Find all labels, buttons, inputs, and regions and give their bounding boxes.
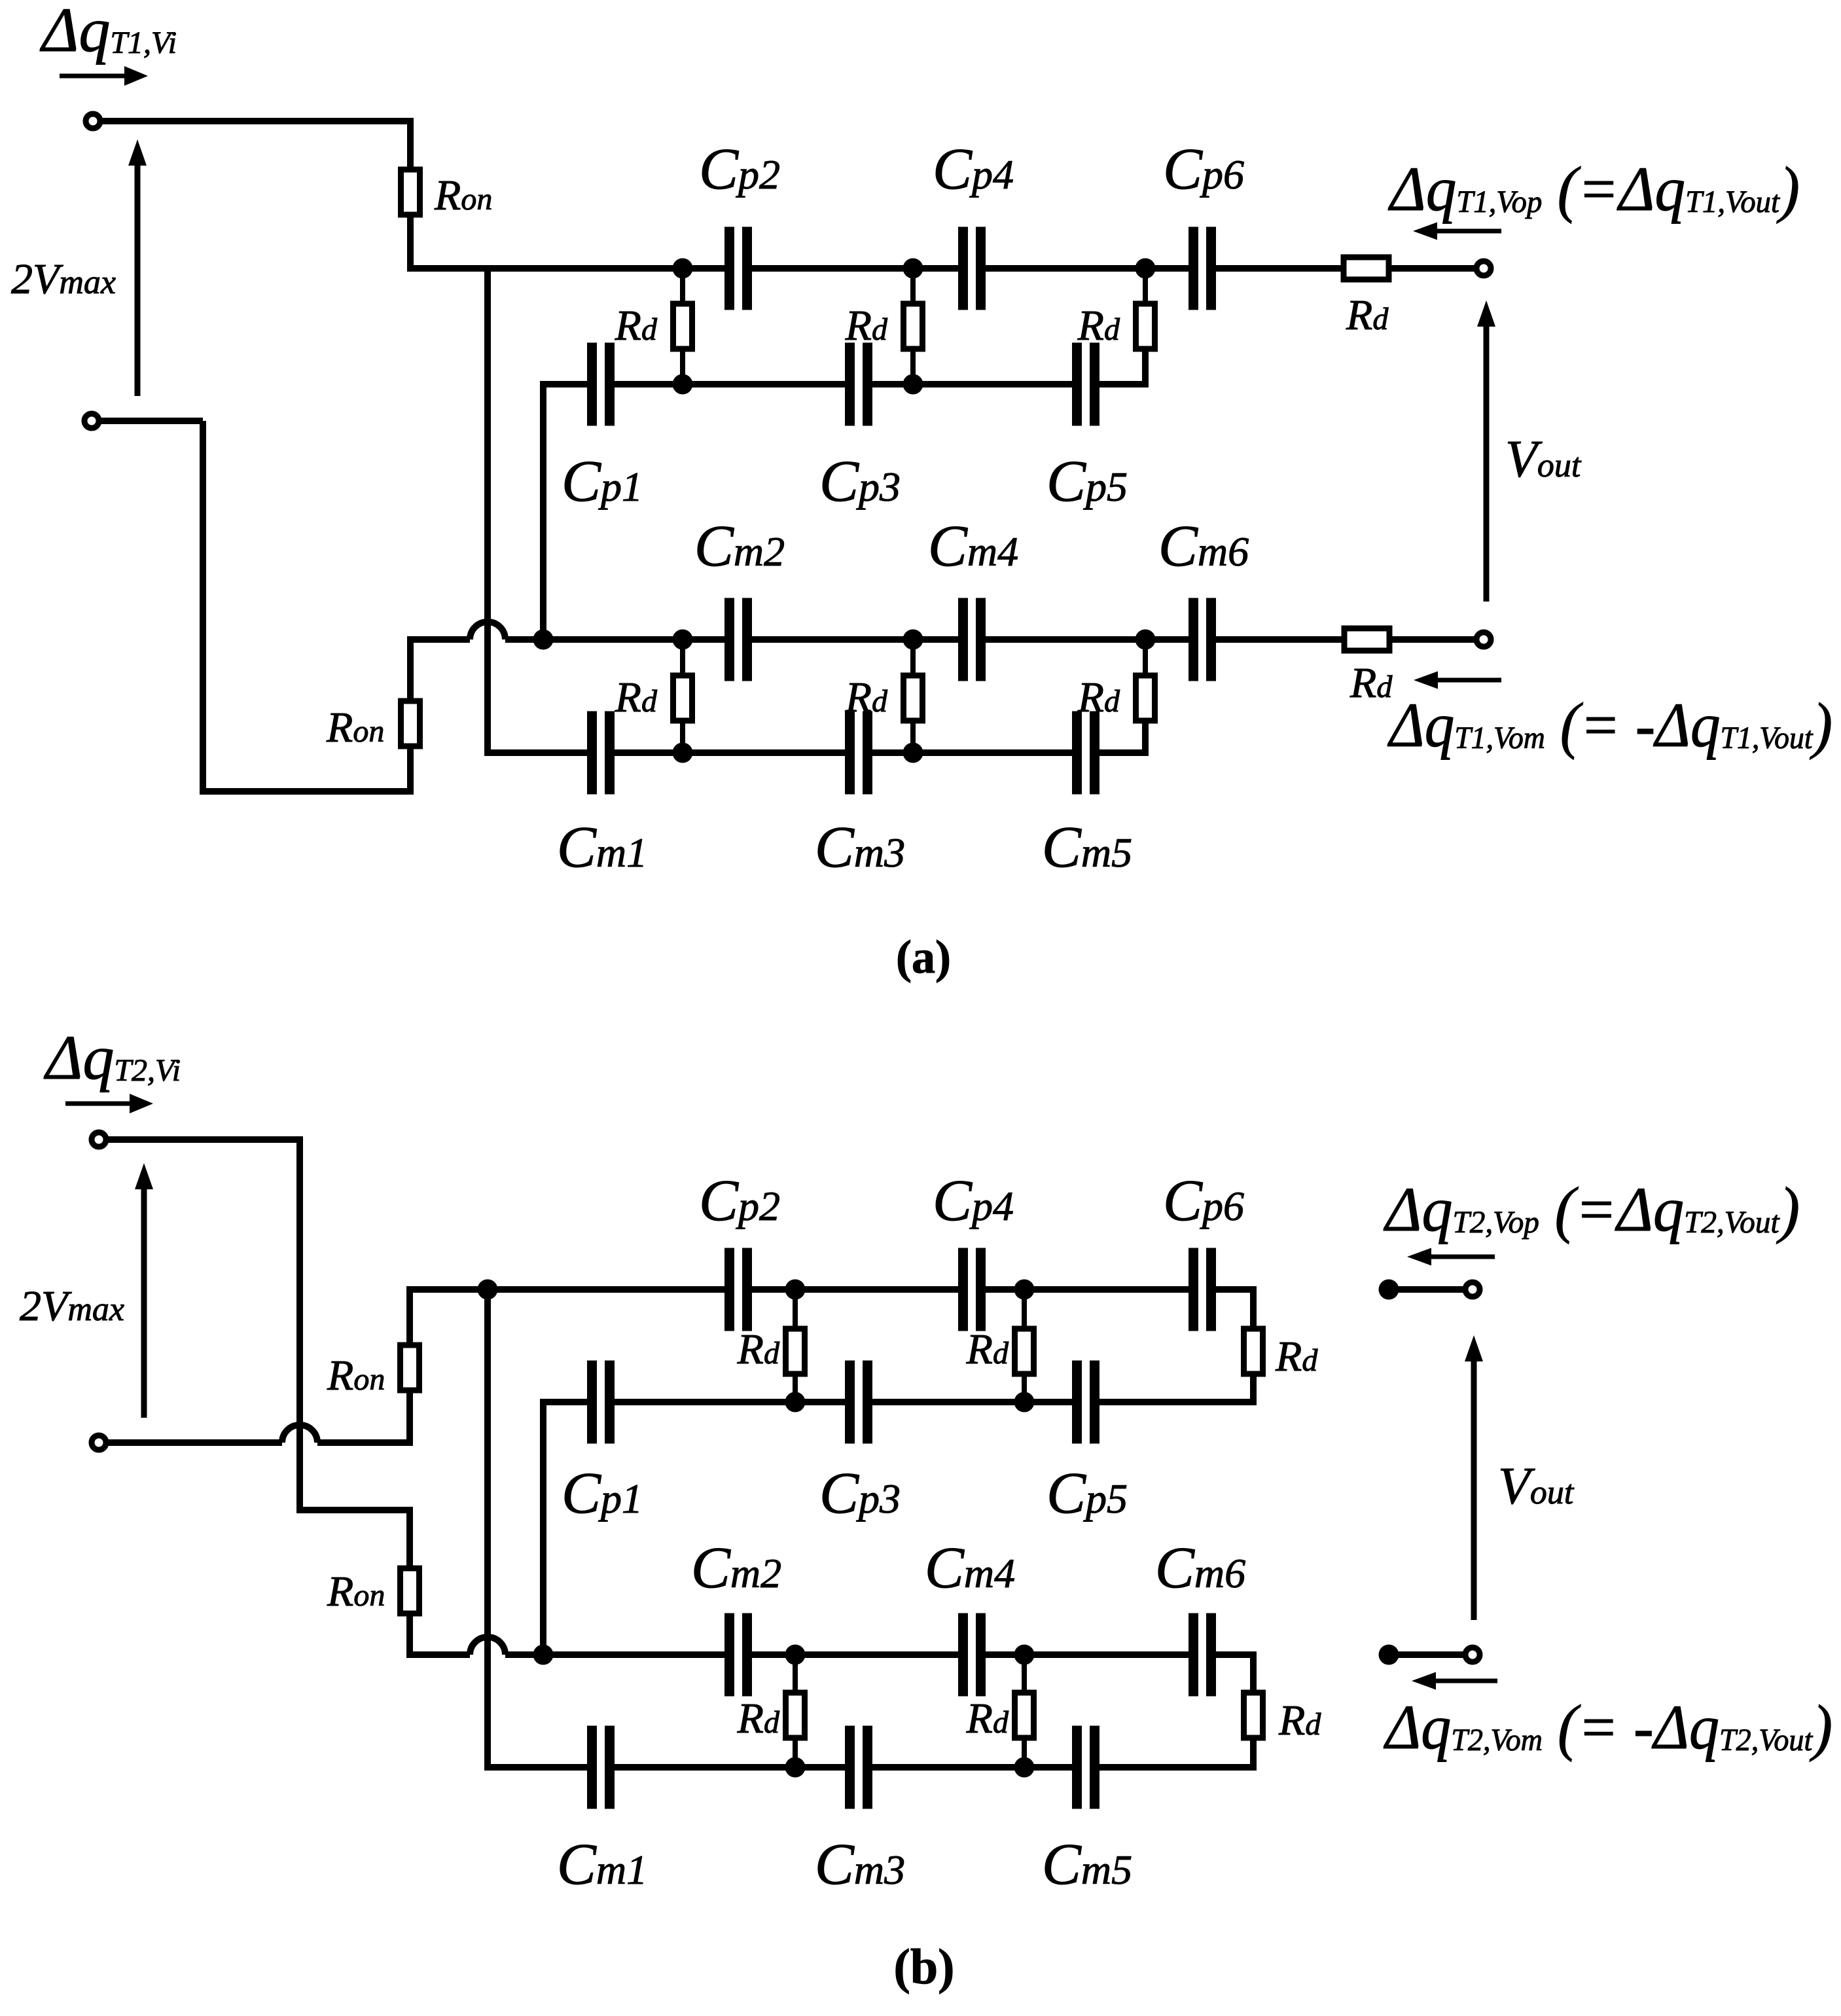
svg-text:(b): (b): [894, 1939, 955, 1994]
svg-text:(a): (a): [896, 931, 951, 983]
